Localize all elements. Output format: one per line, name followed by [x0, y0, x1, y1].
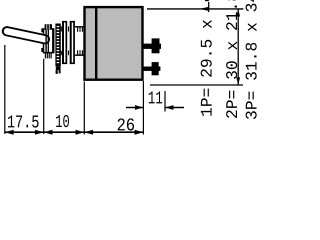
extension line at nut face x=43.7 [43, 59, 45, 134]
dimension text 10 [56, 115, 69, 127]
flat washer B [70, 21, 75, 64]
body seam line [95, 6, 97, 80]
flat washer A [62, 21, 67, 64]
rotated label 2P [226, 0, 237, 118]
bottom extension line for height dim [150, 84, 243, 86]
clipped arrow on top line [200, 7, 209, 11]
extension line at body rear x=143.4 [142, 81, 144, 135]
front knurled nut outline [44, 29, 54, 53]
threaded bushing with thread ticks [61, 27, 84, 56]
dimension text 26 [118, 118, 134, 130]
toggle lever (bat handle) [7, 31, 45, 39]
terminal 1 (solder lug) [143, 38, 161, 53]
arrowhead down [236, 77, 240, 84]
serrated washer teeth below nut [45, 53, 51, 59]
arrowhead right tip x=143.4 [135, 130, 144, 135]
dimension 11 (outside arrows) [126, 107, 143, 109]
arrowheads at x=43.7 [35, 130, 44, 135]
arrowhead left tip x=4.8 [5, 130, 14, 135]
top extension line from body top [147, 8, 243, 10]
clipped glyph sliver [205, 0, 209, 1]
nut knurl notches [41, 28, 43, 32]
extension line at terminal tip x=165 [164, 91, 166, 112]
terminal 2 (solder lug) [143, 62, 160, 75]
front nut interior hatch lines [46, 29, 53, 53]
serrated washer teeth above nut [45, 24, 52, 29]
switch body [85, 7, 143, 80]
lock washer keyway tab [56, 66, 61, 70]
vertical dimension line (body height) [237, 9, 239, 85]
dimension text 11 [149, 92, 163, 104]
bottom chain dimension line [5, 131, 144, 133]
clipped extension tick [208, 2, 210, 12]
arrowheads at x=84.3 [76, 130, 85, 135]
extension line at body front x=84.3 [83, 82, 85, 135]
arrowhead up [236, 9, 240, 16]
extension line at lever tip x=4.8 [4, 45, 6, 134]
rotated label 1P [201, 20, 212, 116]
lock washer (ladder pattern) [55, 24, 60, 67]
dimension text 17.5 [8, 116, 39, 128]
rotated label 3P [246, 0, 257, 119]
